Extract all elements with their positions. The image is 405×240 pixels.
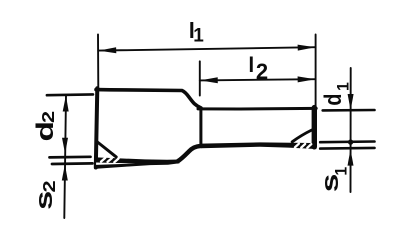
sleeve left edge [96,88,98,167]
svg-text:1: 1 [334,82,353,91]
funnel bottom wall (thick sectioned line) [94,157,179,169]
left tick pair upper (funnel inner bottom) [50,155,91,158]
svg-text:s: s [31,191,57,210]
l2 left arrowhead [200,77,218,83]
tube top tick (extension of tube top edge) [323,109,375,112]
d2/s2 vertical dimension line [64,96,66,218]
l2 left extension line [199,61,201,95]
funnel-to-tube bottom taper (thick curve) [178,146,202,162]
svg-text:2: 2 [40,180,60,192]
svg-text:d: d [32,121,58,142]
d2 down arrowhead [62,138,68,154]
svg-text:2: 2 [256,59,268,84]
l1 dimension line [98,47,315,50]
sleeve top edge with taper into tube top [96,90,201,108]
tube right end face edge [312,108,317,147]
right tick pair lower (tube outer bottom) [320,147,374,150]
d1 down arrowhead [348,94,354,110]
l1 left arrowhead [99,47,117,53]
hatch gaps in funnel wall [101,158,119,162]
white gap between funnel inner and outer bottom lines [96,163,135,165]
svg-text:l: l [248,54,254,77]
l2 right arrowhead [298,76,316,82]
svg-text:1: 1 [193,26,204,47]
svg-text:1: 1 [332,167,351,176]
d2 up arrowhead [63,95,69,111]
tube end flare inner curve [292,130,312,142]
right tick pair upper (tube inner bottom) [320,140,374,143]
hatch gaps in tube end wall [295,144,311,148]
d1/s1 vertical dimension line [350,68,352,192]
l1 right arrowhead [298,45,316,51]
left top tick (extension of sleeve top edge) [47,93,93,96]
l1 right extension line [315,35,317,109]
svg-text:d: d [319,94,346,106]
tube top edge [198,107,316,111]
left tick pair lower (funnel outer bottom) [52,162,93,165]
tube start vertical edge [199,110,202,147]
funnel opening inner edge (diagonal) [97,142,116,157]
s2 up arrowhead [62,164,68,180]
svg-text:2: 2 [39,111,59,123]
tube bottom wall (thick sectioned line) [201,142,316,149]
d1 end dot [348,139,353,144]
l1 left extension line [97,34,99,88]
s1 up arrowhead [348,149,354,165]
l2 dimension line [200,79,316,80]
